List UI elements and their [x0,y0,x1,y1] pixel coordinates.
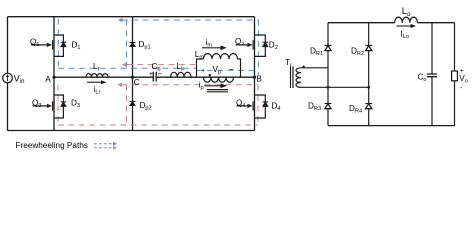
diode DR3 [325,104,332,109]
wire load branch [454,23,456,126]
arrow ip [204,85,221,87]
inductor Lo [395,17,418,23]
svg-text:Q4: Q4 [236,98,246,109]
wire bottom rail [8,130,255,132]
svg-text:Co: Co [418,73,427,84]
freewheeling path red bottom [58,124,258,126]
transformer Tr core [291,66,294,88]
transformer secondary polarity dot [302,66,304,68]
inductor Lr [86,74,108,78]
svg-text:DR2: DR2 [351,46,364,57]
ip double underline [207,90,228,92]
svg-text:Lo: Lo [402,6,411,18]
freewheeling path blue arrow [118,18,123,22]
wire right leg [254,17,256,131]
svg-text:Q2: Q2 [235,37,245,48]
svg-text:iLr: iLr [94,85,101,96]
svg-text:C: C [134,78,140,87]
svg-text:−: − [158,69,162,78]
svg-text:ILo: ILo [401,29,410,40]
freewheeling path red vertical clamp [126,85,128,125]
diode DR2 [365,45,372,50]
freewheeling path blue top [58,19,258,75]
wire rectifier right leg [368,23,370,126]
junction dot secondary crossing [327,86,330,89]
wire top rail [8,16,255,18]
svg-text:DR3: DR3 [308,102,321,113]
diode D2 [263,42,268,46]
svg-text:D3: D3 [71,99,80,110]
svg-text:Dp1: Dp1 [139,40,151,51]
transistor Q4 [237,95,266,118]
diode DR4 [365,104,372,109]
arrow im [202,47,221,49]
freewheeling path blue vertical right [257,20,259,75]
freewheeling path blue vertical clamp [126,20,128,68]
svg-text:DR1: DR1 [310,46,323,57]
svg-text:ip: ip [199,80,204,91]
wire rectifier top rail [328,22,455,24]
node B [253,76,256,79]
svg-text:DR4: DR4 [349,104,362,115]
svg-text:B: B [256,74,262,83]
svg-text:+: + [460,68,464,75]
node C [131,76,134,79]
transistor Q3 [33,95,64,118]
svg-text:Vp: Vp [213,65,222,76]
svg-text:Dp2: Dp2 [140,101,152,112]
svg-text:-: - [460,85,463,92]
svg-text:Tr: Tr [285,58,292,69]
arrow iLr [87,81,102,83]
svg-text:Vin: Vin [14,74,25,86]
inductor Lk [171,72,192,77]
svg-text:Lr: Lr [93,62,100,73]
freewheeling path red vertical left [57,85,59,125]
wire middle A to B [54,76,255,78]
svg-text:im: im [206,38,213,49]
wire left leg [53,17,55,131]
freewheeling path red top [58,65,258,125]
svg-text:D2: D2 [269,41,278,52]
diode D4 [263,102,268,106]
arrow iLo [397,25,412,27]
svg-text:A: A [45,75,51,84]
svg-text:Q1: Q1 [30,37,40,48]
capacitor Cb [153,72,156,82]
freewheeling path red arrow mid [118,83,123,87]
wire left edge [7,17,9,131]
svg-text:D4: D4 [272,102,281,113]
freewheeling path red mid [122,84,259,86]
junction dot secondary to right leg [367,86,370,89]
wire rectifier left leg [327,23,329,126]
svg-text:Lm: Lm [195,50,205,61]
wire Co branch [431,23,433,126]
diode D3 [61,102,66,106]
svg-text:+: + [149,71,153,78]
inductor Lm [204,54,238,59]
wire rectifier bottom rail [328,125,455,127]
wire clamp branch Dp1/Dp2 [132,17,134,131]
resistor load [452,71,458,81]
svg-text:Freewheeling Paths: Freewheeling Paths [16,141,88,150]
capacitor Co [427,74,437,77]
source Vin [3,73,13,83]
transformer secondary winding [296,68,301,88]
svg-text:Lk: Lk [177,62,185,73]
diode DR1 [325,45,332,50]
diode Dp2 [130,101,136,105]
wire secondary top lead [301,67,328,69]
diode Dp1 [130,43,136,47]
legend red arrow [94,147,114,149]
svg-text:+: + [201,67,205,74]
transformer primary winding [204,77,234,82]
svg-text:Q3: Q3 [32,98,42,109]
freewheeling path blue mid right [197,69,259,71]
freewheeling path blue vertical left [57,19,59,68]
svg-text:−: − [229,65,234,74]
transistor Q2 [236,35,266,56]
transformer primary polarity dot [209,74,211,76]
svg-text:D1: D1 [72,41,81,52]
wire Lm parallel box [197,59,241,77]
node A [52,76,55,79]
freewheeling path red arrow top [122,63,127,67]
freewheeling path blue mid left [58,67,196,69]
wire secondary bottom lead [301,86,369,88]
legend blue arrow [94,143,114,145]
source Vin arrow [7,76,9,81]
svg-text:Vo: Vo [459,74,468,85]
transistor Q1 [31,35,63,56]
diode D1 [61,42,66,46]
freewheeling path red vertical right [257,85,259,125]
